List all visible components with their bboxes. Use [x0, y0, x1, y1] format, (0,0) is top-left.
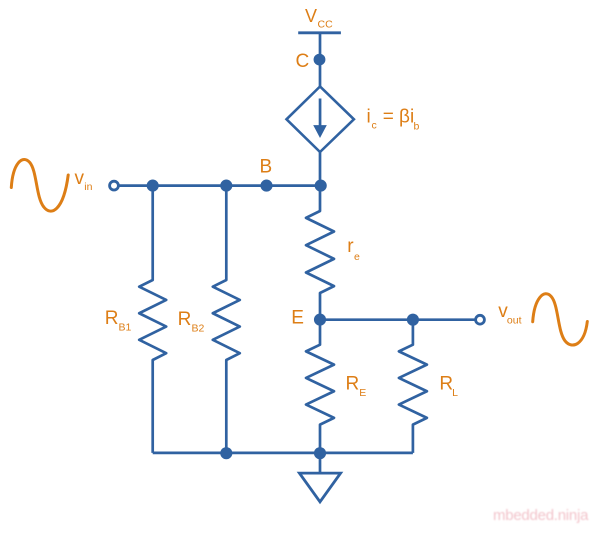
node B junction dot — [260, 180, 272, 192]
label R_B1 — [105, 308, 132, 334]
svg-text:B: B — [260, 156, 273, 177]
resistor R_B2 — [213, 186, 240, 453]
svg-text:E: E — [291, 307, 304, 328]
label v_out — [498, 301, 521, 327]
label r_e — [347, 236, 360, 263]
wire input terminal to node B — [119, 184, 321, 187]
node E junction dot — [314, 314, 326, 326]
svg-text:v: v — [75, 168, 85, 189]
svg-text:B2: B2 — [192, 323, 205, 335]
svg-text:E: E — [359, 387, 366, 399]
output terminal circle — [476, 315, 485, 324]
label V_CC — [305, 6, 333, 31]
label R_E — [346, 374, 367, 399]
junction dot at base column — [315, 180, 327, 192]
svg-text:i: i — [367, 107, 371, 128]
wire node E to output terminal — [320, 318, 476, 321]
svg-text:e: e — [354, 251, 360, 263]
label v_in — [75, 168, 93, 193]
svg-text:R: R — [105, 308, 119, 329]
svg-text:out: out — [507, 315, 522, 327]
source v_in sine symbol — [11, 159, 68, 211]
svg-text:in: in — [84, 181, 92, 193]
junction dot R_L top — [407, 314, 419, 326]
input terminal circle — [110, 181, 119, 190]
svg-text:CC: CC — [318, 19, 334, 31]
sink v_out sine symbol — [533, 294, 588, 345]
ground symbol — [299, 473, 340, 502]
resistor R_L — [399, 320, 427, 453]
junction dot ground — [314, 447, 326, 459]
resistor r_e — [306, 186, 334, 319]
label i_c = beta*i_b — [367, 107, 420, 133]
junction dot R_B1 top — [147, 180, 159, 192]
svg-text:= βi: = βi — [383, 107, 415, 128]
svg-text:R: R — [346, 374, 360, 395]
svg-text:V: V — [305, 6, 317, 26]
current source U1 diamond — [287, 87, 354, 153]
resistor R_B1 — [139, 186, 166, 453]
current source arrow — [313, 99, 327, 139]
svg-text:b: b — [414, 121, 420, 133]
svg-text:R: R — [439, 374, 453, 395]
svg-text:c: c — [372, 120, 377, 132]
svg-text:L: L — [452, 387, 458, 399]
resistor R_E — [306, 320, 334, 453]
svg-text:B1: B1 — [119, 322, 132, 334]
wire to ground — [319, 453, 322, 473]
node C junction dot — [314, 54, 326, 66]
svg-text:mbedded.ninja: mbedded.ninja — [493, 507, 589, 524]
wire V_CC bar to current source — [319, 33, 322, 88]
wire current source to node B — [319, 152, 322, 186]
svg-text:R: R — [178, 309, 192, 330]
junction dot R_B2 bottom — [220, 447, 232, 459]
label R_B2 — [178, 309, 205, 335]
bottom rail wire — [153, 452, 413, 455]
power rail V_CC bar — [298, 31, 341, 34]
svg-text:C: C — [296, 51, 310, 72]
label R_L — [439, 374, 458, 399]
junction dot R_B2 top — [220, 180, 232, 192]
